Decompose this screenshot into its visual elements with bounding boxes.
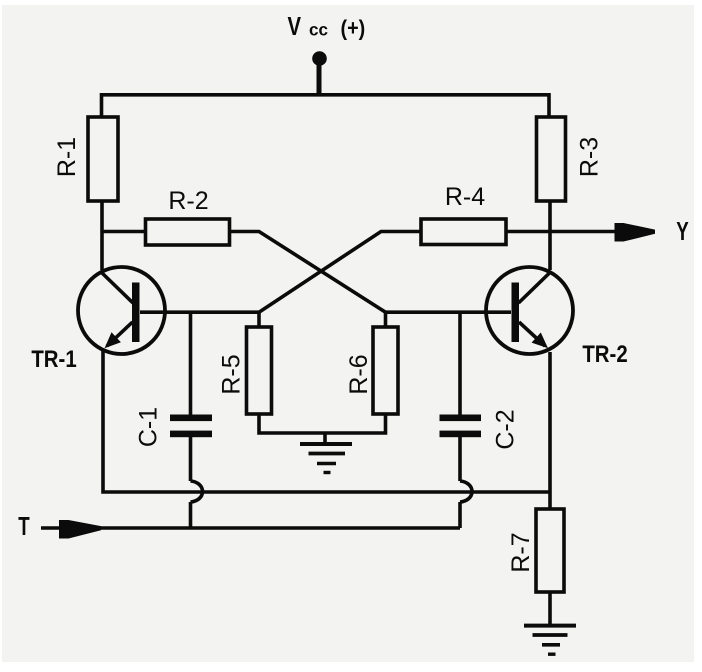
svg-text:C-2: C-2 xyxy=(491,409,519,449)
svg-text:TR-2: TR-2 xyxy=(582,340,627,367)
svg-text:R-3: R-3 xyxy=(575,137,603,177)
svg-text:T: T xyxy=(18,511,30,541)
svg-text:R-5: R-5 xyxy=(217,354,245,394)
svg-text:TR-1: TR-1 xyxy=(31,345,76,372)
svg-text:cc: cc xyxy=(309,19,328,40)
svg-text:R-2: R-2 xyxy=(168,187,208,215)
svg-text:(+): (+) xyxy=(341,17,366,41)
svg-text:V: V xyxy=(288,12,302,41)
svg-text:C-1: C-1 xyxy=(134,407,162,447)
svg-text:R-4: R-4 xyxy=(445,183,485,211)
svg-text:Y: Y xyxy=(676,216,688,246)
svg-text:R-6: R-6 xyxy=(345,354,373,394)
svg-text:R-7: R-7 xyxy=(507,532,535,572)
svg-text:R-1: R-1 xyxy=(53,137,81,177)
